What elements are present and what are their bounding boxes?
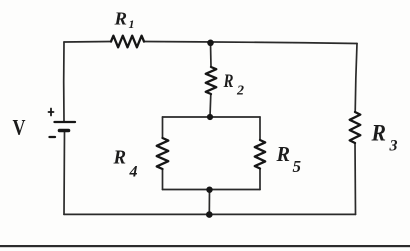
svg-text:4: 4 — [129, 164, 138, 181]
svg-text:2: 2 — [236, 84, 244, 99]
svg-text:R: R — [371, 121, 386, 146]
svg-text:R: R — [276, 142, 290, 166]
svg-text:V: V — [13, 115, 26, 140]
svg-text:1: 1 — [129, 17, 135, 31]
svg-text:R: R — [113, 147, 126, 169]
svg-text:3: 3 — [389, 138, 398, 155]
svg-text:5: 5 — [293, 157, 302, 176]
svg-text:R: R — [113, 9, 127, 29]
svg-text:R: R — [223, 71, 234, 92]
